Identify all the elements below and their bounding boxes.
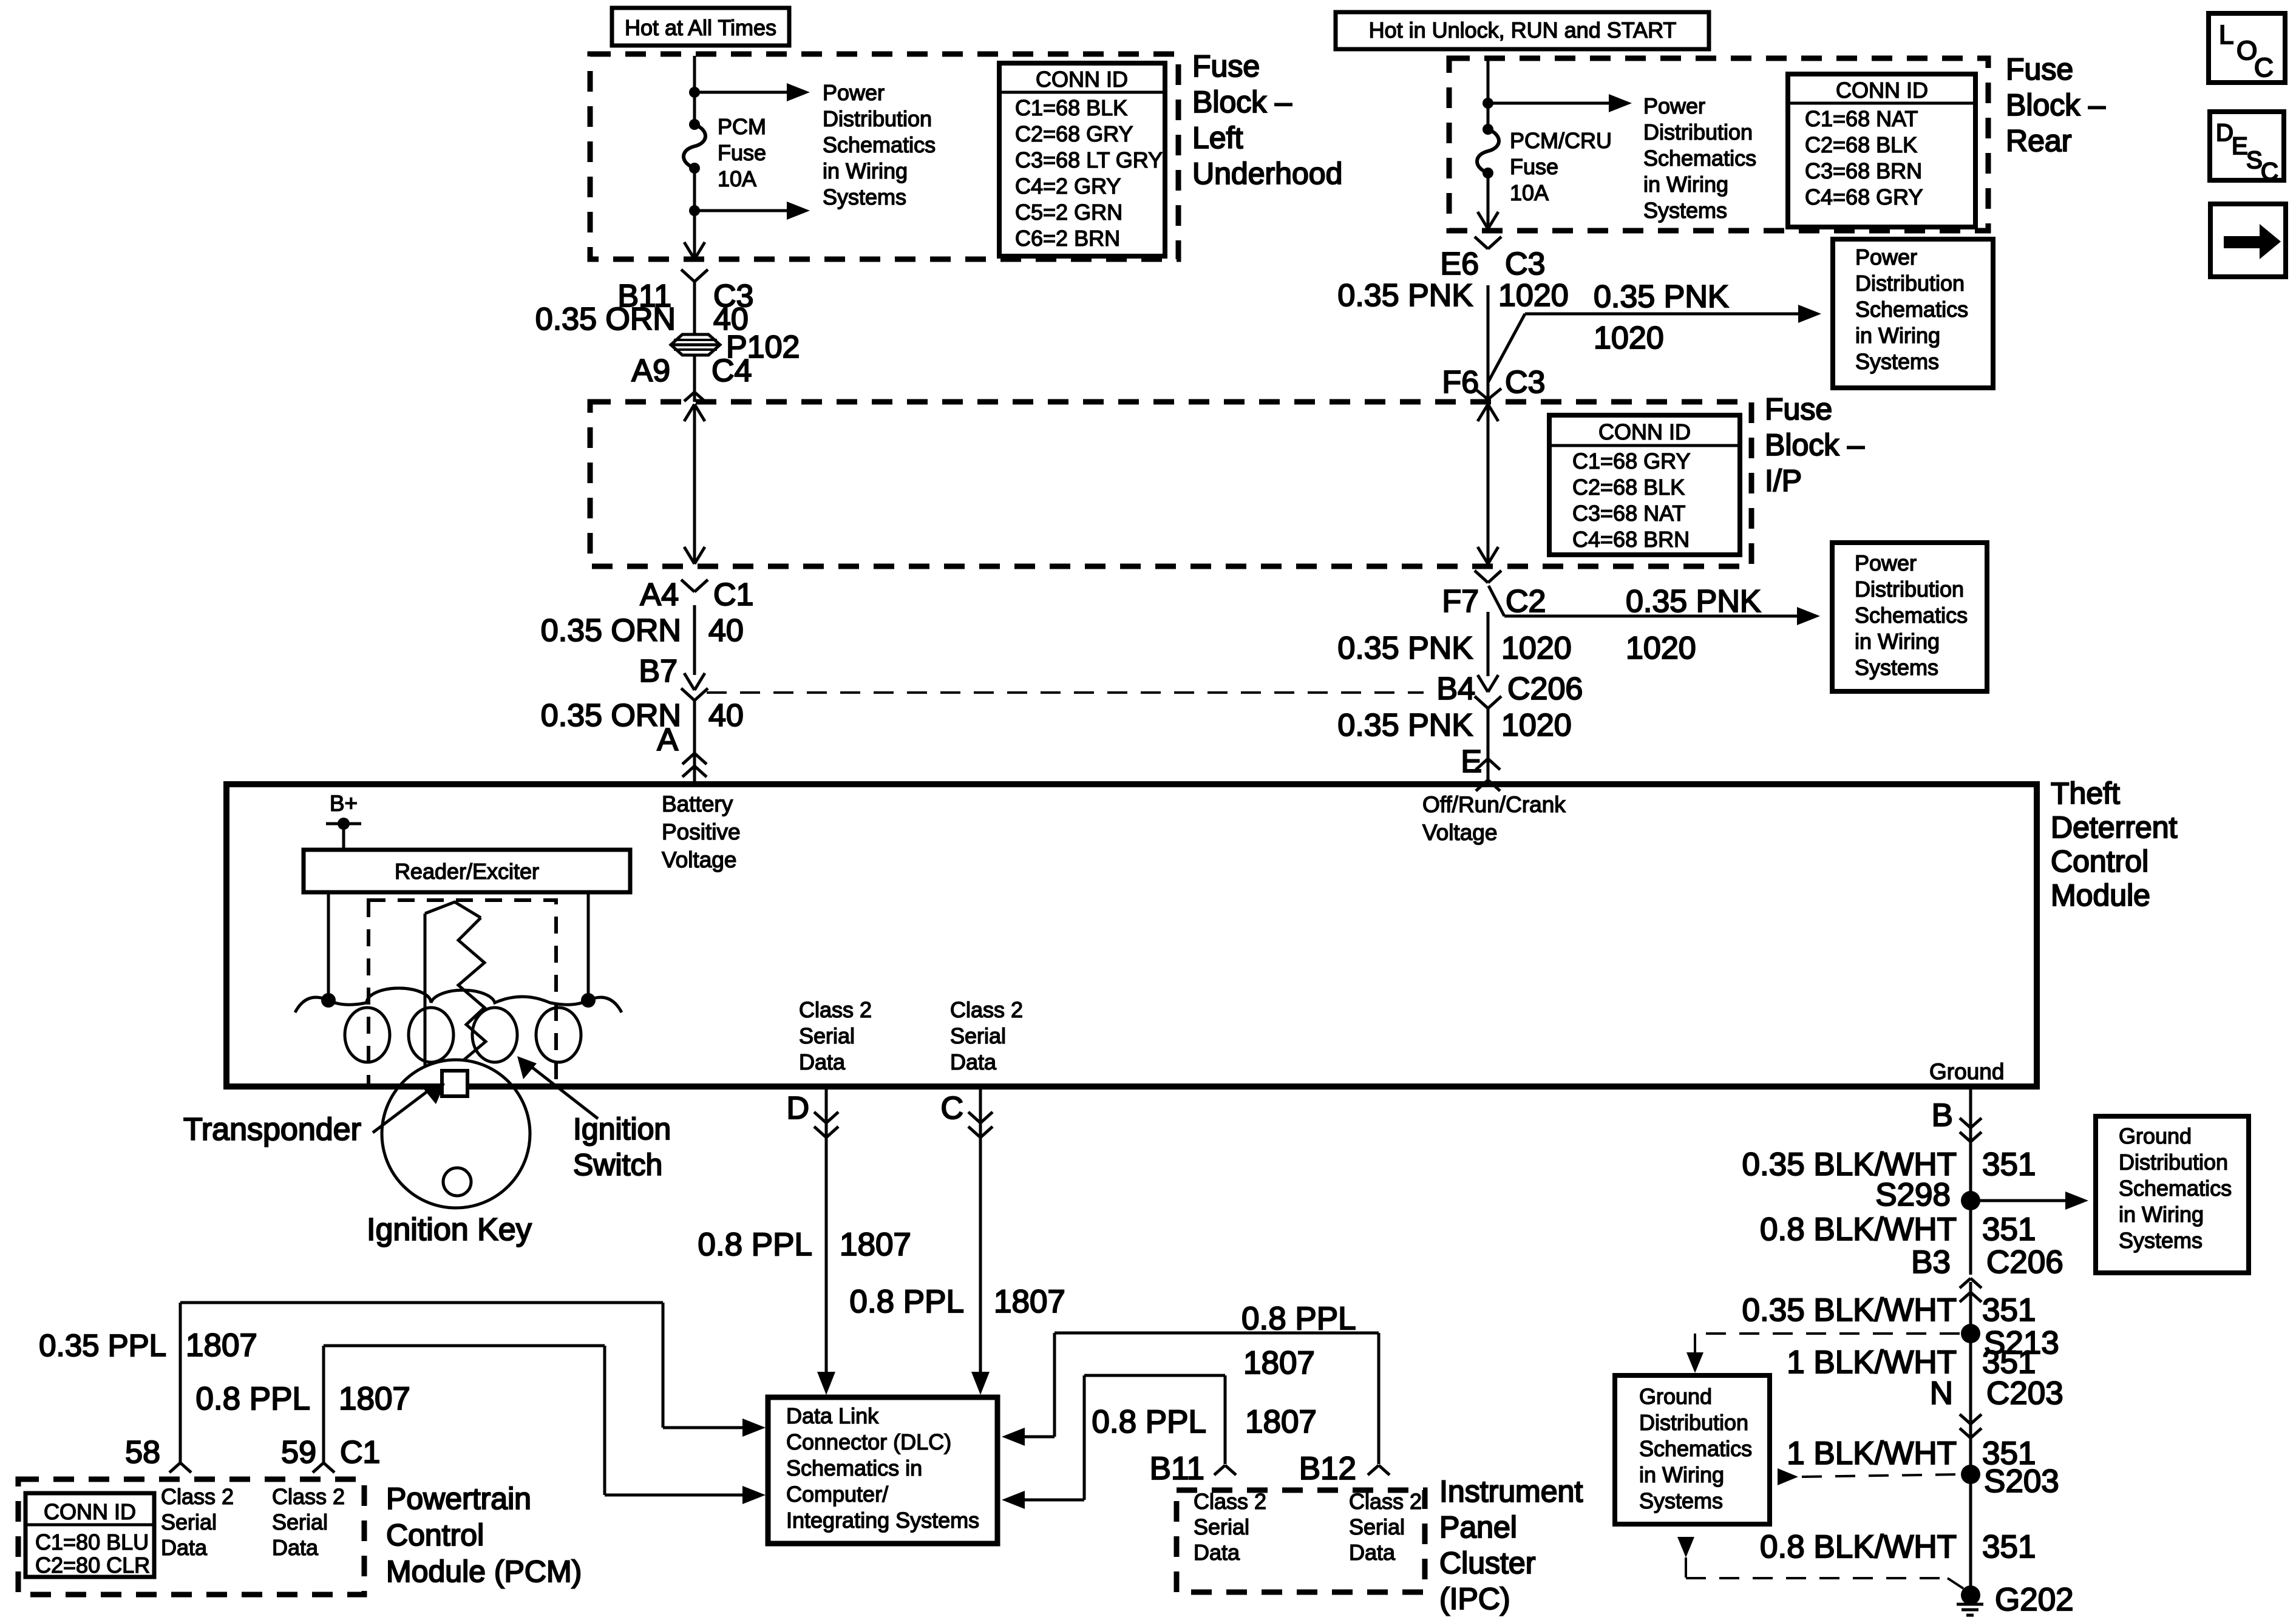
svg-text:C4=68 BRN: C4=68 BRN (1572, 527, 1690, 552)
svg-text:Computer/: Computer/ (786, 1482, 888, 1507)
svg-text:C6=2 BRN: C6=2 BRN (1015, 226, 1120, 251)
svg-text:0.8 PPL: 0.8 PPL (849, 1284, 964, 1320)
svg-text:Ground: Ground (2119, 1124, 2192, 1148)
svg-text:L: L (2219, 20, 2233, 50)
svg-text:Schematics: Schematics (1855, 297, 1968, 322)
svg-text:1020: 1020 (1594, 320, 1664, 356)
svg-text:B: B (1932, 1097, 1953, 1133)
svg-text:Connector (DLC): Connector (DLC) (786, 1429, 951, 1454)
svg-text:in Wiring: in Wiring (1855, 323, 1940, 348)
svg-text:Class 2: Class 2 (161, 1484, 234, 1509)
svg-text:Distribution: Distribution (1855, 271, 1965, 296)
svg-text:C2=68 BLK: C2=68 BLK (1805, 132, 1917, 157)
svg-text:Battery: Battery (662, 792, 733, 816)
svg-text:E: E (2232, 133, 2248, 160)
svg-text:Left: Left (1192, 121, 1243, 155)
svg-text:1020: 1020 (1501, 708, 1572, 743)
svg-text:S298: S298 (1875, 1177, 1951, 1213)
svg-text:Data Link: Data Link (786, 1403, 879, 1428)
svg-text:Fuse: Fuse (1765, 392, 1832, 426)
svg-text:Data: Data (950, 1049, 997, 1074)
svg-text:40: 40 (708, 613, 744, 648)
svg-text:Serial: Serial (1349, 1514, 1405, 1539)
svg-text:Ground: Ground (1929, 1059, 2004, 1084)
svg-text:351: 351 (1982, 1147, 2036, 1182)
svg-text:Theft: Theft (2051, 776, 2120, 810)
svg-text:Fuse: Fuse (718, 140, 766, 165)
svg-text:Serial: Serial (1194, 1514, 1249, 1539)
svg-text:D: D (2216, 120, 2233, 146)
svg-text:0.35 ORN: 0.35 ORN (541, 613, 681, 648)
svg-text:Power: Power (1643, 93, 1705, 118)
svg-text:C: C (2261, 158, 2278, 185)
svg-text:351: 351 (1982, 1292, 2036, 1328)
svg-text:Reader/Exciter: Reader/Exciter (395, 859, 539, 884)
svg-text:C3=68 NAT: C3=68 NAT (1572, 501, 1685, 526)
svg-text:0.35 BLK/WHT: 0.35 BLK/WHT (1742, 1292, 1957, 1328)
svg-text:Voltage: Voltage (1422, 820, 1497, 845)
svg-text:C1: C1 (340, 1435, 380, 1470)
svg-text:Block –: Block – (1765, 428, 1864, 462)
svg-text:C5=2 GRN: C5=2 GRN (1015, 200, 1123, 225)
svg-text:Voltage: Voltage (662, 847, 736, 872)
svg-text:0.35 PNK: 0.35 PNK (1337, 278, 1473, 313)
svg-text:59: 59 (281, 1435, 316, 1470)
svg-text:Hot in Unlock, RUN and START: Hot in Unlock, RUN and START (1369, 18, 1677, 42)
svg-text:C4=2 GRY: C4=2 GRY (1015, 174, 1121, 198)
svg-text:Hot at All Times: Hot at All Times (625, 15, 776, 40)
svg-text:58: 58 (125, 1435, 160, 1470)
svg-text:Systems: Systems (1639, 1488, 1723, 1513)
svg-text:in Wiring: in Wiring (2119, 1202, 2204, 1227)
svg-text:0.35 PNK: 0.35 PNK (1337, 708, 1473, 743)
svg-text:S: S (2246, 147, 2263, 174)
svg-text:Control: Control (2051, 844, 2148, 878)
svg-text:C2=80 CLR: C2=80 CLR (35, 1553, 150, 1578)
svg-text:C3=68 BRN: C3=68 BRN (1805, 158, 1922, 183)
svg-text:C3=68 LT GRY: C3=68 LT GRY (1015, 147, 1163, 172)
svg-text:C206: C206 (1986, 1244, 2063, 1280)
svg-text:B7: B7 (639, 654, 678, 689)
svg-text:Powertrain: Powertrain (386, 1482, 531, 1516)
svg-text:Distribution: Distribution (1643, 120, 1753, 144)
svg-text:Rear: Rear (2006, 124, 2071, 158)
svg-text:1 BLK/WHT: 1 BLK/WHT (1787, 1436, 1957, 1471)
svg-text:0.8 PPL: 0.8 PPL (698, 1227, 812, 1263)
svg-text:Distribution: Distribution (823, 106, 932, 131)
svg-text:Distribution: Distribution (2119, 1150, 2228, 1175)
svg-text:Panel: Panel (1439, 1510, 1517, 1544)
svg-text:Schematics: Schematics (2119, 1176, 2232, 1201)
svg-text:C3: C3 (1505, 365, 1545, 400)
svg-text:Class 2: Class 2 (1194, 1489, 1266, 1514)
svg-text:Ground: Ground (1639, 1384, 1712, 1409)
svg-text:C2=68 GRY: C2=68 GRY (1015, 121, 1133, 146)
svg-text:40: 40 (708, 698, 744, 733)
svg-text:1807: 1807 (1243, 1345, 1315, 1381)
svg-text:C1=68 NAT: C1=68 NAT (1805, 106, 1918, 131)
svg-text:S203: S203 (1984, 1463, 2059, 1499)
svg-text:Systems: Systems (2119, 1228, 2203, 1253)
svg-text:N: N (1930, 1375, 1953, 1411)
svg-text:1807: 1807 (840, 1227, 911, 1263)
svg-text:E6: E6 (1440, 246, 1479, 282)
svg-text:Transponder: Transponder (183, 1112, 361, 1147)
svg-text:Instrument: Instrument (1439, 1474, 1583, 1508)
svg-text:351: 351 (1982, 1529, 2036, 1565)
svg-text:1807: 1807 (186, 1327, 257, 1363)
svg-text:0.8 PPL: 0.8 PPL (195, 1381, 310, 1417)
svg-text:Schematics: Schematics (1643, 146, 1756, 171)
svg-text:Block –: Block – (1192, 85, 1292, 119)
svg-text:Class 2: Class 2 (799, 997, 872, 1022)
svg-text:Distribution: Distribution (1855, 577, 1964, 602)
svg-text:C1=68 GRY: C1=68 GRY (1572, 449, 1690, 473)
svg-text:1020: 1020 (1501, 631, 1572, 666)
svg-text:1807: 1807 (339, 1381, 410, 1417)
svg-text:Systems: Systems (1855, 655, 1938, 680)
svg-text:Serial: Serial (799, 1023, 855, 1048)
svg-text:B+: B+ (330, 791, 358, 816)
svg-text:(IPC): (IPC) (1439, 1582, 1510, 1616)
svg-text:C1=68 BLK: C1=68 BLK (1015, 95, 1127, 120)
svg-text:C: C (2254, 53, 2274, 83)
svg-text:1807: 1807 (1245, 1404, 1317, 1440)
svg-text:in Wiring: in Wiring (1643, 172, 1728, 197)
svg-text:A9: A9 (631, 353, 670, 388)
svg-text:Systems: Systems (1855, 349, 1939, 374)
svg-text:PCM/CRU: PCM/CRU (1510, 128, 1612, 153)
svg-text:Class 2: Class 2 (272, 1484, 345, 1509)
svg-text:Deterrent: Deterrent (2051, 810, 2178, 844)
svg-text:Class 2: Class 2 (1349, 1489, 1422, 1514)
svg-text:Data: Data (161, 1535, 208, 1560)
svg-text:CONN ID: CONN ID (1036, 67, 1128, 92)
svg-text:Serial: Serial (161, 1510, 217, 1534)
svg-text:C1=80 BLU: C1=80 BLU (35, 1530, 149, 1554)
svg-text:F7: F7 (1442, 584, 1479, 619)
svg-text:1020: 1020 (1626, 631, 1696, 666)
svg-text:Ignition: Ignition (573, 1112, 671, 1146)
svg-text:Block –: Block – (2006, 88, 2105, 122)
svg-text:E: E (1461, 744, 1482, 779)
svg-text:Power: Power (1855, 245, 1917, 269)
svg-text:in Wiring: in Wiring (1639, 1462, 1724, 1487)
svg-text:0.8 PPL: 0.8 PPL (1092, 1404, 1206, 1440)
svg-text:Module: Module (2051, 878, 2150, 912)
svg-text:CONN ID: CONN ID (1836, 78, 1928, 103)
svg-text:Schematics in: Schematics in (786, 1456, 922, 1480)
svg-text:Fuse: Fuse (1510, 154, 1558, 179)
svg-text:A4: A4 (640, 577, 679, 612)
svg-text:Positive: Positive (662, 819, 741, 844)
svg-text:B12: B12 (1299, 1451, 1356, 1486)
svg-text:Systems: Systems (823, 185, 906, 209)
svg-text:0.35 PNK: 0.35 PNK (1337, 631, 1473, 666)
svg-text:CONN ID: CONN ID (1598, 419, 1691, 444)
svg-text:Data: Data (272, 1535, 319, 1560)
svg-text:Switch: Switch (573, 1148, 662, 1182)
svg-text:0.8 BLK/WHT: 0.8 BLK/WHT (1760, 1212, 1957, 1247)
svg-text:Class 2: Class 2 (950, 997, 1023, 1022)
svg-text:Underhood: Underhood (1192, 157, 1342, 191)
svg-text:Control: Control (386, 1518, 484, 1552)
svg-text:1807: 1807 (994, 1284, 1065, 1320)
svg-text:Data: Data (1194, 1540, 1240, 1565)
svg-text:0.35 PNK: 0.35 PNK (1626, 584, 1761, 619)
svg-text:351: 351 (1982, 1212, 2036, 1247)
svg-text:Distribution: Distribution (1639, 1410, 1748, 1435)
svg-text:PCM: PCM (718, 114, 766, 139)
svg-text:C4=68 GRY: C4=68 GRY (1805, 185, 1923, 209)
svg-text:Cluster: Cluster (1439, 1546, 1535, 1580)
svg-text:C1: C1 (713, 577, 753, 612)
svg-text:B3: B3 (1911, 1244, 1951, 1280)
svg-text:Module (PCM): Module (PCM) (386, 1554, 582, 1588)
svg-text:10A: 10A (718, 166, 756, 191)
svg-text:10A: 10A (1510, 180, 1549, 205)
svg-text:in Wiring: in Wiring (823, 158, 908, 183)
svg-text:I/P: I/P (1765, 464, 1802, 498)
svg-text:A: A (657, 722, 678, 758)
svg-text:C4: C4 (712, 353, 752, 388)
svg-text:Schematics: Schematics (823, 132, 936, 157)
svg-text:Fuse: Fuse (1192, 49, 1260, 83)
svg-text:C203: C203 (1986, 1375, 2063, 1411)
svg-text:C: C (940, 1091, 963, 1126)
svg-text:F6: F6 (1442, 365, 1479, 400)
svg-text:1020: 1020 (1498, 278, 1569, 313)
svg-text:Integrating Systems: Integrating Systems (786, 1508, 979, 1533)
svg-text:Power: Power (823, 80, 885, 105)
svg-text:0.35 PPL: 0.35 PPL (39, 1328, 166, 1363)
svg-text:Power: Power (1855, 551, 1917, 575)
svg-text:D: D (786, 1091, 809, 1126)
svg-text:C206: C206 (1507, 671, 1583, 707)
svg-text:G202: G202 (1995, 1582, 2074, 1617)
svg-text:Fuse: Fuse (2006, 52, 2073, 86)
svg-text:Serial: Serial (950, 1023, 1006, 1048)
svg-text:B11: B11 (1150, 1451, 1204, 1486)
svg-text:B4: B4 (1436, 671, 1475, 707)
svg-text:0.8 BLK/WHT: 0.8 BLK/WHT (1760, 1529, 1957, 1565)
svg-text:Schematics: Schematics (1855, 603, 1968, 628)
svg-text:C2: C2 (1506, 584, 1546, 619)
svg-text:0.35 ORN: 0.35 ORN (535, 302, 676, 337)
svg-text:Data: Data (1349, 1540, 1396, 1565)
svg-text:CONN ID: CONN ID (44, 1499, 136, 1524)
svg-text:0.8 PPL: 0.8 PPL (1241, 1301, 1356, 1337)
svg-text:Serial: Serial (272, 1510, 328, 1534)
svg-text:Systems: Systems (1643, 198, 1727, 223)
svg-text:0.35 PNK: 0.35 PNK (1594, 279, 1729, 314)
svg-text:C3: C3 (1505, 246, 1545, 282)
svg-text:in Wiring: in Wiring (1855, 629, 1940, 654)
svg-text:Ignition Key: Ignition Key (367, 1212, 532, 1247)
svg-text:C2=68 BLK: C2=68 BLK (1572, 475, 1685, 500)
svg-text:Off/Run/Crank: Off/Run/Crank (1422, 792, 1566, 817)
svg-text:Schematics: Schematics (1639, 1436, 1752, 1461)
svg-text:Data: Data (799, 1049, 846, 1074)
